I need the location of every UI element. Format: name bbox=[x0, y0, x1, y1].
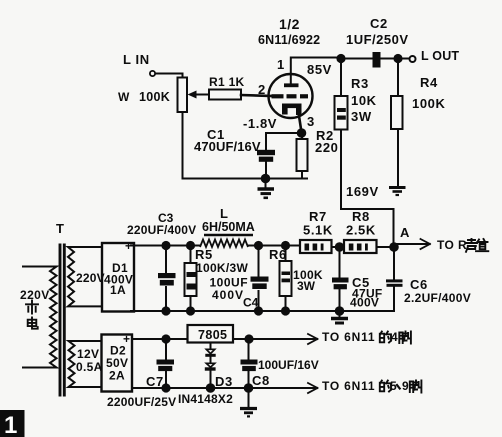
svg-text:6N11/6922: 6N11/6922 bbox=[258, 33, 320, 47]
svg-text:IN4148X2: IN4148X2 bbox=[178, 392, 233, 406]
svg-text:100K: 100K bbox=[412, 96, 445, 111]
svg-text:12V: 12V bbox=[77, 347, 99, 361]
svg-text:400V: 400V bbox=[350, 296, 379, 310]
svg-text:2: 2 bbox=[258, 82, 266, 97]
svg-text:TO 6N11: TO 6N11 bbox=[322, 330, 375, 344]
svg-text:D3: D3 bbox=[215, 374, 233, 389]
svg-text:TO R: TO R bbox=[437, 238, 467, 252]
svg-text:C7: C7 bbox=[146, 374, 164, 389]
svg-text:R4: R4 bbox=[420, 75, 438, 90]
svg-text:9: 9 bbox=[402, 379, 409, 393]
svg-text:A: A bbox=[400, 225, 410, 240]
svg-text:C6: C6 bbox=[410, 277, 428, 292]
svg-text:470UF/16V: 470UF/16V bbox=[194, 139, 261, 154]
svg-text:220V: 220V bbox=[20, 288, 50, 302]
svg-text:0.5A: 0.5A bbox=[76, 360, 103, 374]
svg-text:C8: C8 bbox=[252, 373, 270, 388]
svg-text:1UF/250V: 1UF/250V bbox=[346, 32, 409, 47]
svg-text:169V: 169V bbox=[346, 184, 379, 199]
svg-text:6H/50MA: 6H/50MA bbox=[202, 220, 255, 234]
svg-text:400V: 400V bbox=[212, 288, 244, 302]
svg-text:85V: 85V bbox=[307, 62, 332, 77]
svg-text:W: W bbox=[118, 90, 130, 104]
svg-text:220UF/400V: 220UF/400V bbox=[127, 223, 196, 237]
svg-text:+: + bbox=[125, 239, 132, 253]
svg-text:R3: R3 bbox=[351, 76, 369, 91]
svg-text:R1 1K: R1 1K bbox=[209, 75, 245, 89]
svg-text:C4: C4 bbox=[243, 296, 259, 310]
svg-text:1/2: 1/2 bbox=[279, 16, 300, 32]
svg-text:1: 1 bbox=[277, 57, 285, 72]
svg-text:3: 3 bbox=[307, 114, 315, 129]
svg-text:T: T bbox=[56, 221, 65, 236]
svg-text:3W: 3W bbox=[351, 109, 372, 124]
svg-text:3W: 3W bbox=[297, 279, 316, 293]
svg-text:L: L bbox=[220, 206, 229, 221]
svg-text:220: 220 bbox=[315, 140, 339, 155]
svg-text:R5: R5 bbox=[195, 247, 213, 262]
svg-text:2.2UF/400V: 2.2UF/400V bbox=[404, 291, 471, 305]
svg-text:2A: 2A bbox=[109, 369, 125, 383]
svg-text:220V: 220V bbox=[76, 271, 105, 285]
svg-text:100K: 100K bbox=[139, 90, 170, 104]
svg-text:2200UF/25V: 2200UF/25V bbox=[107, 395, 176, 409]
svg-text:1A: 1A bbox=[110, 283, 126, 297]
svg-text:L OUT: L OUT bbox=[421, 49, 459, 63]
svg-text:100K/3W: 100K/3W bbox=[196, 261, 248, 275]
svg-text:TO 6N11: TO 6N11 bbox=[322, 379, 375, 393]
svg-text:L IN: L IN bbox=[123, 52, 150, 67]
svg-text:7805: 7805 bbox=[198, 328, 227, 342]
svg-text:R6: R6 bbox=[269, 247, 287, 262]
svg-text:5.1K: 5.1K bbox=[303, 223, 333, 238]
svg-text:4: 4 bbox=[391, 330, 398, 344]
svg-text:10K: 10K bbox=[351, 93, 377, 108]
svg-text:2.5K: 2.5K bbox=[346, 223, 376, 238]
svg-text:C2: C2 bbox=[370, 16, 388, 31]
svg-text:-1.8V: -1.8V bbox=[243, 116, 277, 131]
svg-text:+: + bbox=[123, 332, 130, 346]
svg-text:1: 1 bbox=[4, 412, 17, 437]
svg-text:100UF/16V: 100UF/16V bbox=[258, 358, 319, 372]
